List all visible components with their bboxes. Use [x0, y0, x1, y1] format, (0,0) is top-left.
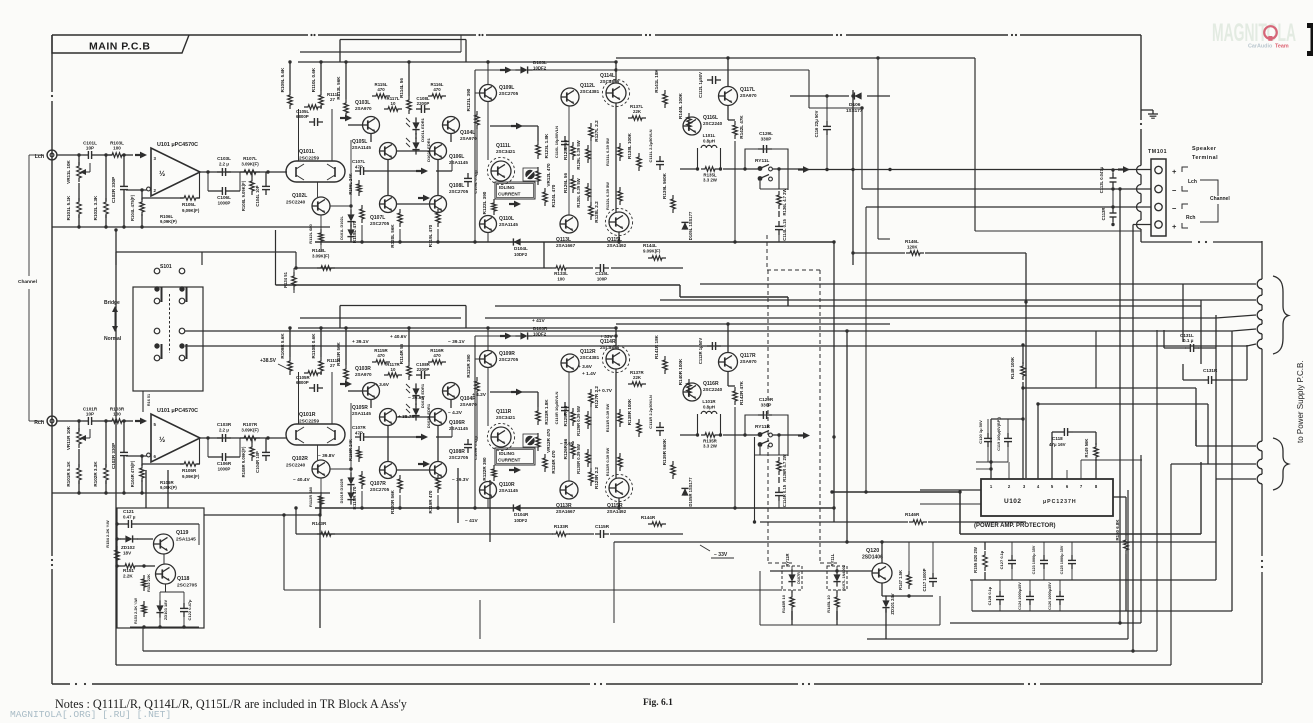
svg-text:6800P: 6800P	[296, 114, 309, 119]
svg-text:47P: 47P	[355, 431, 363, 436]
terminal row4 wire	[1133, 224, 1151, 226]
svg-text:C128 0.1μ: C128 0.1μ	[987, 586, 992, 605]
svg-text:10DF2: 10DF2	[514, 518, 528, 523]
svg-text:9,09K(F): 9,09K(F)	[182, 474, 200, 479]
svg-text:+ 1.4V: + 1.4V	[582, 371, 597, 377]
svg-text:R146L: R146L	[905, 239, 919, 244]
switch bottom stub	[142, 391, 144, 412]
inner top rail upper	[340, 305, 466, 307]
svg-text:2SA1492: 2SA1492	[607, 509, 627, 514]
svg-text:R148 100K: R148 100K	[1010, 356, 1015, 379]
feedback loop from output	[199, 438, 201, 464]
diode D105L 1SS177	[681, 222, 688, 229]
bracket for power supply harness top group	[1273, 276, 1289, 354]
resistor R105L 9.09K(F) feedback	[180, 196, 200, 201]
capacitor C106L 1000P feedback	[217, 190, 222, 192]
svg-text:½: ½	[159, 435, 165, 444]
svg-text:C129L: C129L	[759, 131, 773, 136]
potentiometer VR11L 10K	[77, 162, 82, 182]
svg-text:D101L EDR1: D101L EDR1	[420, 117, 425, 141]
svg-text:C121: C121	[123, 509, 134, 514]
switch pole B left	[154, 343, 159, 348]
svg-text:− 36.6V: − 36.6V	[408, 395, 425, 401]
svg-text:+ 38.7V: + 38.7V	[398, 414, 415, 420]
op-amp inverting input wire to C102	[126, 455, 147, 457]
arrow into Q103 base	[340, 117, 346, 119]
diode D101L	[347, 214, 354, 221]
svg-text:100: 100	[557, 277, 565, 282]
svg-text:ZD103 18V: ZD103 18V	[163, 600, 168, 621]
wires around differential pair	[348, 390, 362, 392]
-33V supply bus	[614, 541, 1216, 543]
svg-text:2SA1667: 2SA1667	[556, 509, 576, 514]
border frame - left edge	[51, 35, 53, 92]
svg-text:D102L EDR1: D102L EDR1	[426, 137, 431, 161]
svg-text:− 39.8V: − 39.8V	[318, 453, 335, 459]
switch S101 outline box	[133, 287, 203, 391]
svg-text:R140R 100K: R140R 100K	[678, 358, 683, 385]
svg-text:R133L: R133L	[554, 271, 568, 276]
svg-text:1000P: 1000P	[218, 467, 231, 472]
svg-text:100P: 100P	[597, 277, 607, 282]
svg-text:D104L: D104L	[514, 246, 528, 251]
svg-text:0.1 μ: 0.1 μ	[1183, 338, 1194, 343]
resistor R118R 470	[360, 471, 365, 489]
resistor R102L 3.3K	[104, 198, 109, 218]
Q118 emitter wire	[165, 584, 167, 592]
svg-text:22K: 22K	[633, 375, 642, 380]
svg-text:IDLING: IDLING	[499, 185, 515, 190]
svg-text:D101L D102L: D101L D102L	[340, 215, 344, 239]
svg-text:+: +	[1172, 167, 1177, 176]
svg-text:C127 0.1μ: C127 0.1μ	[999, 550, 1004, 569]
svg-text:R145L 10: R145L 10	[826, 594, 831, 612]
wire from S101 to R143L	[202, 251, 296, 253]
svg-text:5: 5	[1051, 484, 1054, 489]
svg-text:VR12R 470: VR12R 470	[546, 429, 551, 453]
svg-text:2SA970: 2SA970	[740, 93, 757, 98]
resistor R107L 3.09K(F)	[240, 170, 260, 175]
diode D103R 10DF2	[520, 332, 527, 339]
resistor R108L 9.09K(F)	[250, 177, 255, 195]
capacitor C102L 330P	[123, 181, 125, 186]
svg-text:R130R 0.39 5W: R130R 0.39 5W	[576, 444, 581, 474]
svg-text:2SC2705: 2SC2705	[499, 357, 519, 362]
svg-text:− 3.6V: − 3.6V	[560, 441, 575, 447]
arrow into Q103 base	[340, 383, 346, 385]
svg-text:U101 μPC4570C: U101 μPC4570C	[157, 142, 198, 148]
svg-text:R107L: R107L	[243, 156, 257, 161]
signal arrow into op-amp	[135, 154, 141, 156]
svg-text:C104L 10P: C104L 10P	[255, 185, 260, 206]
vertical rail x834	[833, 242, 835, 522]
svg-text:C103R: C103R	[217, 422, 232, 427]
LED diode D101L	[412, 122, 419, 129]
resistor R133L 100	[552, 266, 570, 271]
capacitor C106R 1000P feedback	[217, 456, 222, 458]
rail drop x809 to ground link	[808, 70, 810, 108]
op-amp U101 (1/2) uPC4570C	[151, 148, 200, 196]
svg-text:R113L 56K: R113L 56K	[336, 76, 341, 100]
zener diode ZD103 18V	[159, 592, 161, 603]
switch S101 top contacts	[154, 268, 160, 274]
svg-text:2SC2705: 2SC2705	[449, 455, 469, 460]
power rail to harness y404	[1037, 404, 1039, 479]
terminal lug 4 (+ Rch)	[1155, 221, 1162, 228]
svg-text:100: 100	[113, 146, 121, 151]
svg-text:10P: 10P	[86, 146, 94, 151]
svg-text:C106L: C106L	[217, 195, 231, 200]
Q101/Q102 wiring	[317, 445, 319, 460]
svg-text:D107L 1N4002: D107L 1N4002	[842, 565, 846, 591]
svg-text:3.09K(F): 3.09K(F)	[241, 428, 259, 433]
L output wire to terminal	[806, 169, 1151, 171]
svg-text:2SC2705: 2SC2705	[449, 189, 469, 194]
svg-text:L101L: L101L	[703, 133, 716, 138]
svg-text:C107L: C107L	[352, 159, 365, 164]
Bridge/Normal two-headed arrow	[114, 309, 116, 329]
svg-text:R151: R151	[123, 568, 134, 573]
resistor R107R 3.09K(F)	[240, 436, 260, 441]
svg-text:C118: C118	[1052, 436, 1063, 441]
power rail to harness y388	[1023, 387, 1196, 389]
arrow above Q111L	[490, 125, 538, 127]
svg-text:6800P: 6800P	[296, 380, 309, 385]
capacitor C101R 10P	[83, 420, 88, 422]
svg-text:R144L: R144L	[643, 243, 657, 248]
svg-text:6: 6	[154, 454, 157, 459]
arrow on drive wire	[416, 170, 422, 172]
svg-text:C103L: C103L	[217, 156, 231, 161]
svg-text:Q101R: Q101R	[299, 412, 316, 418]
svg-text:R123R 1.8K: R123R 1.8K	[544, 399, 549, 425]
svg-text:2SA1145: 2SA1145	[352, 411, 371, 416]
svg-text:R16 51: R16 51	[147, 394, 151, 406]
svg-text:2SC2705: 2SC2705	[370, 487, 390, 492]
svg-text:C124 1000μ35V: C124 1000μ35V	[1018, 582, 1022, 610]
svg-text:C115R: C115R	[595, 524, 610, 529]
svg-text:18V: 18V	[123, 551, 132, 556]
relay R common drop to sense wire	[754, 437, 756, 522]
terminal lug 1 (+ Lch)	[1155, 166, 1162, 173]
svg-text:C102R 330P: C102R 330P	[111, 443, 116, 469]
svg-text:R133R: R133R	[554, 524, 569, 529]
svg-text:2SA1492: 2SA1492	[607, 243, 627, 248]
svg-text:2SC2705: 2SC2705	[370, 221, 390, 226]
resistor R135L 3.3 2W	[701, 167, 719, 172]
svg-text:C110L 10μ50VLN: C110L 10μ50VLN	[554, 126, 559, 158]
svg-text:R125R 56: R125R 56	[563, 405, 568, 426]
svg-text:IDLING: IDLING	[499, 451, 515, 456]
svg-text:C111L 2.2μ50VLN: C111L 2.2μ50VLN	[648, 129, 653, 162]
svg-text:S101: S101	[160, 264, 172, 270]
resistor R135R 3.3 2W	[701, 433, 719, 438]
svg-text:2SC4381: 2SC4381	[580, 355, 600, 360]
svg-text:D105L 1SS177: D105L 1SS177	[688, 211, 693, 240]
left end verticals of bottom buses	[479, 600, 481, 639]
svg-text:R124R 470: R124R 470	[551, 450, 556, 474]
svg-text:2200P: 2200P	[417, 101, 430, 106]
svg-text:R150 6.8K: R150 6.8K	[1115, 519, 1120, 541]
svg-text:− 39.1V: − 39.1V	[448, 339, 465, 345]
svg-text:4: 4	[1037, 484, 1040, 489]
svg-text:C115L: C115L	[595, 271, 609, 276]
svg-text:3.09K(F): 3.09K(F)	[312, 254, 330, 259]
svg-text:2SC3421: 2SC3421	[496, 415, 516, 420]
IC U102 uPC1237H power amp protector	[981, 479, 1113, 516]
svg-text:μPC1237H: μPC1237H	[1043, 499, 1077, 505]
svg-text:2SA1145: 2SA1145	[352, 145, 371, 150]
svg-text:9.09K(F): 9.09K(F)	[643, 249, 661, 254]
relay control dashed rails	[766, 235, 768, 270]
svg-text:R121L 390: R121L 390	[466, 88, 471, 111]
svg-text:R129R 0.39 5W: R129R 0.39 5W	[576, 406, 581, 436]
svg-text:RY11L: RY11L	[830, 553, 835, 566]
svg-text:100: 100	[113, 412, 121, 417]
inner top rail upper	[340, 39, 466, 41]
resistor R105R 9.09K(F) feedback	[180, 462, 200, 467]
svg-text:+ 0.7V: + 0.7V	[598, 388, 613, 394]
svg-text:470: 470	[377, 353, 385, 358]
right edge wire to speaker terminal	[1140, 35, 1142, 120]
svg-text:R154 2.2K ½W: R154 2.2K ½W	[105, 520, 110, 548]
wire R133L C115L	[543, 242, 545, 268]
svg-text:7: 7	[1080, 484, 1083, 489]
zener diode ZD102 18V	[125, 535, 132, 542]
border frame - bottom edge	[52, 683, 70, 685]
border frame of MAIN P.C.B schematic - top edge	[52, 34, 308, 36]
svg-text:10P: 10P	[86, 412, 94, 417]
diode D102L series	[347, 229, 354, 236]
svg-text:R118L 470: R118L 470	[352, 220, 357, 243]
ground bus under input stage	[52, 492, 330, 494]
svg-text:2SA1667: 2SA1667	[556, 243, 576, 248]
vertical drops from R channel to bottom buses	[319, 497, 321, 628]
svg-text:CarAudio: CarAudio	[1248, 44, 1273, 50]
link between speaker minus wires	[1112, 189, 1114, 207]
Q101R collector feeds	[298, 372, 300, 424]
svg-text:10DF2: 10DF2	[514, 252, 528, 257]
svg-text:120K: 120K	[907, 245, 918, 250]
svg-text:D107R: D107R	[797, 572, 801, 584]
svg-text:CURRENT: CURRENT	[498, 458, 521, 463]
output arrow after relay	[798, 434, 804, 436]
svg-text:2SC2240: 2SC2240	[286, 463, 306, 468]
resistor R120L 56K	[398, 209, 403, 227]
input jack Lch	[47, 150, 57, 160]
svg-text:CURRENT: CURRENT	[498, 192, 521, 197]
main wires channel output stage	[615, 328, 617, 349]
svg-text:+: +	[1172, 222, 1177, 231]
svg-text:2SA970: 2SA970	[355, 106, 372, 111]
svg-text:R119L 470: R119L 470	[428, 224, 433, 247]
LED diode D102R	[412, 408, 419, 415]
svg-text:6: 6	[1066, 484, 1069, 489]
resistor R119L 470	[436, 209, 441, 227]
bottom long bus y651	[143, 650, 1157, 652]
left rail verticals joining channels	[115, 230, 117, 665]
svg-text:470: 470	[433, 353, 441, 358]
IDLING CURRENT label box	[495, 182, 535, 199]
svg-text:3.3 2W: 3.3 2W	[703, 178, 718, 183]
signal arrow into op-amp	[135, 420, 141, 422]
svg-text:C122 0.47μ: C122 0.47μ	[187, 599, 192, 620]
svg-text:R131L 0.39 5W: R131L 0.39 5W	[605, 138, 610, 166]
potentiometer VR11R 10K	[77, 428, 82, 448]
connector loop pin (lower group) 2	[1257, 459, 1262, 469]
svg-text:2SC2240: 2SC2240	[703, 387, 723, 392]
svg-text:2SA1145: 2SA1145	[499, 488, 518, 493]
svg-text:D103R: D103R	[533, 326, 548, 331]
wire from bias block right	[204, 514, 320, 516]
svg-text:R107R: R107R	[243, 422, 258, 427]
svg-text:2SA970: 2SA970	[740, 359, 757, 364]
op-amp U101 (1/2) uPC4570C	[151, 414, 200, 462]
svg-text:R136R 4.7 2W: R136R 4.7 2W	[782, 454, 787, 482]
svg-text:R141L 18K: R141L 18K	[654, 69, 659, 93]
bias block outline	[117, 508, 204, 628]
vertical above pin8 area	[1095, 331, 1097, 388]
switch wires to right long buses	[185, 330, 1232, 332]
connector loop pin (top group) 2	[1257, 295, 1262, 305]
svg-text:R119R 470: R119R 470	[428, 490, 433, 513]
svg-text:R120L 56K: R120L 56K	[390, 224, 395, 248]
svg-text:R105L: R105L	[182, 202, 196, 207]
connector loop pin (lower group) 1	[1257, 441, 1262, 451]
idling current adjust trimmer VR12R	[523, 434, 538, 447]
svg-text:R136L 4.7 2W: R136L 4.7 2W	[782, 188, 787, 215]
svg-text:D104R: D104R	[514, 512, 529, 517]
feedback loop from output	[199, 172, 201, 198]
resistor R147 1.5K	[907, 571, 912, 589]
svg-text:R132L 0.39 5W: R132L 0.39 5W	[605, 182, 610, 210]
connector loop pin (top group) 5	[1257, 339, 1262, 349]
svg-text:U101 μPC4570C: U101 μPC4570C	[157, 408, 198, 414]
capacitor C104R 10P	[265, 447, 267, 452]
switch pole A left	[154, 286, 159, 291]
svg-text:C107R: C107R	[352, 425, 366, 430]
svg-text:R114L 56: R114L 56	[399, 78, 404, 98]
bottom long bus y611 cap bank return	[972, 610, 1232, 612]
svg-text:R145R 10: R145R 10	[781, 594, 786, 613]
svg-text:− 40.4V: − 40.4V	[293, 477, 310, 483]
svg-text:− 4.2V: − 4.2V	[448, 410, 463, 416]
svg-text:+38.5V: +38.5V	[260, 358, 277, 364]
svg-text:2SC2705: 2SC2705	[499, 91, 519, 96]
LED diode D102L	[412, 142, 419, 149]
capacitor C117 1000P	[932, 573, 934, 578]
op-amp output wire	[200, 171, 287, 173]
svg-text:− 39.3V: − 39.3V	[452, 477, 469, 483]
capacitor C105L 6800P	[309, 121, 314, 123]
diode D101R	[347, 477, 354, 484]
diode D103L 10DF2	[520, 66, 527, 73]
connector loop pin (top group) 1	[1257, 279, 1262, 289]
resistor R108R 9.09K(F)	[250, 443, 255, 461]
svg-text:2SC2240: 2SC2240	[286, 200, 306, 205]
svg-text:1SS177: 1SS177	[846, 108, 863, 113]
svg-text:9,09K(F): 9,09K(F)	[182, 208, 200, 213]
svg-text:R112R 680: R112R 680	[308, 486, 313, 507]
switch pole A right	[179, 286, 184, 291]
vertical rail x878	[877, 58, 879, 239]
svg-text:Q101L: Q101L	[299, 149, 316, 155]
svg-text:2SA1145: 2SA1145	[176, 537, 196, 543]
bottom long bus y665	[116, 664, 1171, 666]
svg-text:C106R: C106R	[217, 461, 232, 466]
svg-text:+ 41V: + 41V	[532, 318, 545, 324]
svg-text:Q118: Q118	[177, 576, 190, 582]
svg-text:R104L 475(F): R104L 475(F)	[130, 194, 135, 221]
zener ZD101 24V	[882, 600, 889, 607]
U102 pin wires short	[1008, 462, 1010, 479]
svg-text:C125 1000μ 35V: C125 1000μ 35V	[1060, 545, 1064, 574]
svg-text:D102R EDR1: D102R EDR1	[426, 403, 431, 428]
svg-text:2SD1406: 2SD1406	[862, 555, 883, 561]
svg-text:Normal: Normal	[104, 336, 122, 342]
svg-text:VR12L 470: VR12L 470	[546, 163, 551, 187]
svg-text:MAIN P.C.B: MAIN P.C.B	[89, 41, 150, 53]
capacitor C109R 0.47u	[467, 439, 469, 444]
bus y306	[495, 305, 1201, 307]
diode D105R 1SS177	[681, 488, 688, 495]
right harness outer vertical to power supply	[1261, 241, 1263, 277]
svg-text:Bridge: Bridge	[104, 300, 120, 306]
bottom long bus y639	[867, 638, 1128, 640]
svg-text:R102R 3.3K: R102R 3.3K	[93, 461, 98, 487]
harness bus wires	[700, 283, 1256, 285]
svg-text:R125L 56: R125L 56	[563, 140, 568, 161]
arrow mid stage	[418, 463, 424, 465]
Q101/Q102 wiring	[317, 182, 319, 197]
capacitor C102R 330P	[123, 447, 125, 452]
resistor R104L 475(F)	[140, 198, 145, 216]
svg-text:½: ½	[159, 169, 165, 178]
svg-text:2SC4381: 2SC4381	[580, 89, 600, 94]
svg-text:+ 3.6V: + 3.6V	[578, 364, 593, 370]
svg-text:Rch: Rch	[1186, 215, 1195, 221]
emitter bus thick under channel R	[315, 507, 834, 509]
svg-text:+ 3.6V: + 3.6V	[375, 382, 390, 388]
arrow on drive wire	[416, 436, 422, 438]
svg-text:RY11R: RY11R	[785, 553, 790, 566]
svg-text:C116 22μ 50V: C116 22μ 50V	[814, 110, 819, 137]
svg-text:Terminal: Terminal	[1192, 155, 1218, 161]
svg-text:R138L 100K: R138L 100K	[627, 132, 632, 159]
svg-text:R110L 0.6K: R110L 0.6K	[311, 67, 316, 92]
svg-text:R142L 47K: R142L 47K	[739, 115, 744, 139]
svg-text:TM101: TM101	[1148, 149, 1167, 155]
svg-text:27: 27	[330, 97, 335, 102]
svg-text:R153 2.2K ¼W: R153 2.2K ¼W	[134, 598, 138, 624]
svg-text:2200P: 2200P	[417, 367, 430, 372]
arrow below idling box	[509, 469, 515, 471]
wires around differential pair	[348, 124, 362, 126]
svg-text:9,09K(P): 9,09K(P)	[160, 219, 177, 224]
resistor R119R 470	[436, 475, 441, 493]
svg-text:− 41V: − 41V	[465, 518, 478, 524]
svg-text:R122L 390: R122L 390	[482, 191, 487, 214]
resistor R101L 5.1K	[77, 198, 82, 218]
svg-text:R156R 24K: R156R 24K	[348, 439, 353, 461]
capacitor C115L 100P	[595, 267, 600, 269]
svg-text:C120 1μ 50V: C120 1μ 50V	[978, 420, 983, 444]
svg-text:R113R 56K: R113R 56K	[336, 341, 341, 365]
Q119-Q118 link	[163, 554, 165, 564]
black scan mark right edge	[1307, 23, 1313, 28]
svg-text:Speaker: Speaker	[1192, 146, 1217, 152]
wires entering protector from left	[920, 489, 981, 491]
